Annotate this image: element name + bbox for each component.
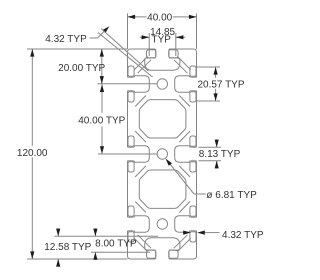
svg-text:40.00: 40.00: [147, 13, 172, 24]
dimension dia 6.81 TYP center bore leader: [194, 193, 206, 195]
svg-text:8.00 TYP: 8.00 TYP: [95, 239, 137, 250]
corner web bottom-right: [174, 235, 191, 252]
center bore hole 1 (dia 6.81): [157, 79, 167, 89]
svg-text:8.13 TYP: 8.13 TYP: [199, 149, 241, 160]
center bore hole 2 (dia 6.81): [157, 149, 167, 159]
svg-text:20.57 TYP: 20.57 TYP: [197, 79, 244, 90]
corner web top-right: [174, 56, 191, 73]
web wall octagon y=118.8 corner -1,1: [135, 131, 146, 142]
T-slot right face 2: [190, 146, 196, 148]
web wall octagon y=189.2 corner 1,-1: [179, 166, 190, 177]
T-slot right face 1: [190, 76, 196, 78]
dimension 20.00 TYP end to first slot center: [45, 48, 128, 50]
web wall octagon y=189.2 corner -1,1: [135, 202, 146, 213]
T-slot left face 2: [128, 146, 134, 148]
dimension 20.57 TYP T-slot inner width: [197, 66, 220, 68]
svg-text:4.32 TYP: 4.32 TYP: [45, 34, 87, 45]
dimension 120.00 overall length: [27, 48, 46, 50]
web wall octagon y=189.2 corner 1,1: [179, 202, 190, 213]
web wall octagon y=189.2 corner -1,-1: [135, 166, 146, 177]
svg-text:4.32 TYP: 4.32 TYP: [222, 230, 264, 241]
dimension 40.00 TYP slot spacing: [98, 153, 157, 155]
svg-text:20.00 TYP: 20.00 TYP: [58, 63, 105, 74]
svg-text:40.00 TYP: 40.00 TYP: [78, 116, 125, 127]
T-slot right face 3: [190, 216, 196, 218]
svg-text:TYP: TYP: [151, 34, 171, 45]
svg-text:120.00: 120.00: [17, 148, 48, 159]
web wall octagon y=118.8 corner 1,-1: [179, 96, 190, 107]
octagonal cavity lower: [139, 170, 186, 208]
web wall octagon y=118.8 corner -1,-1: [135, 96, 146, 107]
T-slot left face 1: [128, 76, 134, 78]
corner web bottom-left: [134, 235, 151, 252]
svg-text:12.58 TYP: 12.58 TYP: [44, 242, 91, 253]
extrusion outer boundary: [128, 49, 197, 259]
dimension 8.13 TYP slot opening: [199, 146, 221, 148]
dimension 8.00 TYP cavity back width: [91, 251, 150, 253]
web wall octagon y=118.8 corner 1,1: [179, 131, 190, 142]
octagonal cavity upper: [139, 100, 186, 138]
T-slot bottom face: [155, 251, 157, 259]
svg-text:ø 6.81 TYP: ø 6.81 TYP: [206, 190, 257, 201]
dimension 4.32 TYP slot lip width: [205, 232, 220, 234]
dimension 14.85 TYP slot cavity width: [148, 33, 150, 56]
dimension 40.00 overall width: [127, 14, 129, 50]
center bore hole 3 (dia 6.81): [157, 219, 167, 229]
T-slot left face 3: [128, 216, 134, 218]
corner web top-left: [134, 56, 151, 73]
dimension 12.58 TYP slot depth: [55, 235, 159, 237]
T-slot top face: [155, 49, 157, 57]
